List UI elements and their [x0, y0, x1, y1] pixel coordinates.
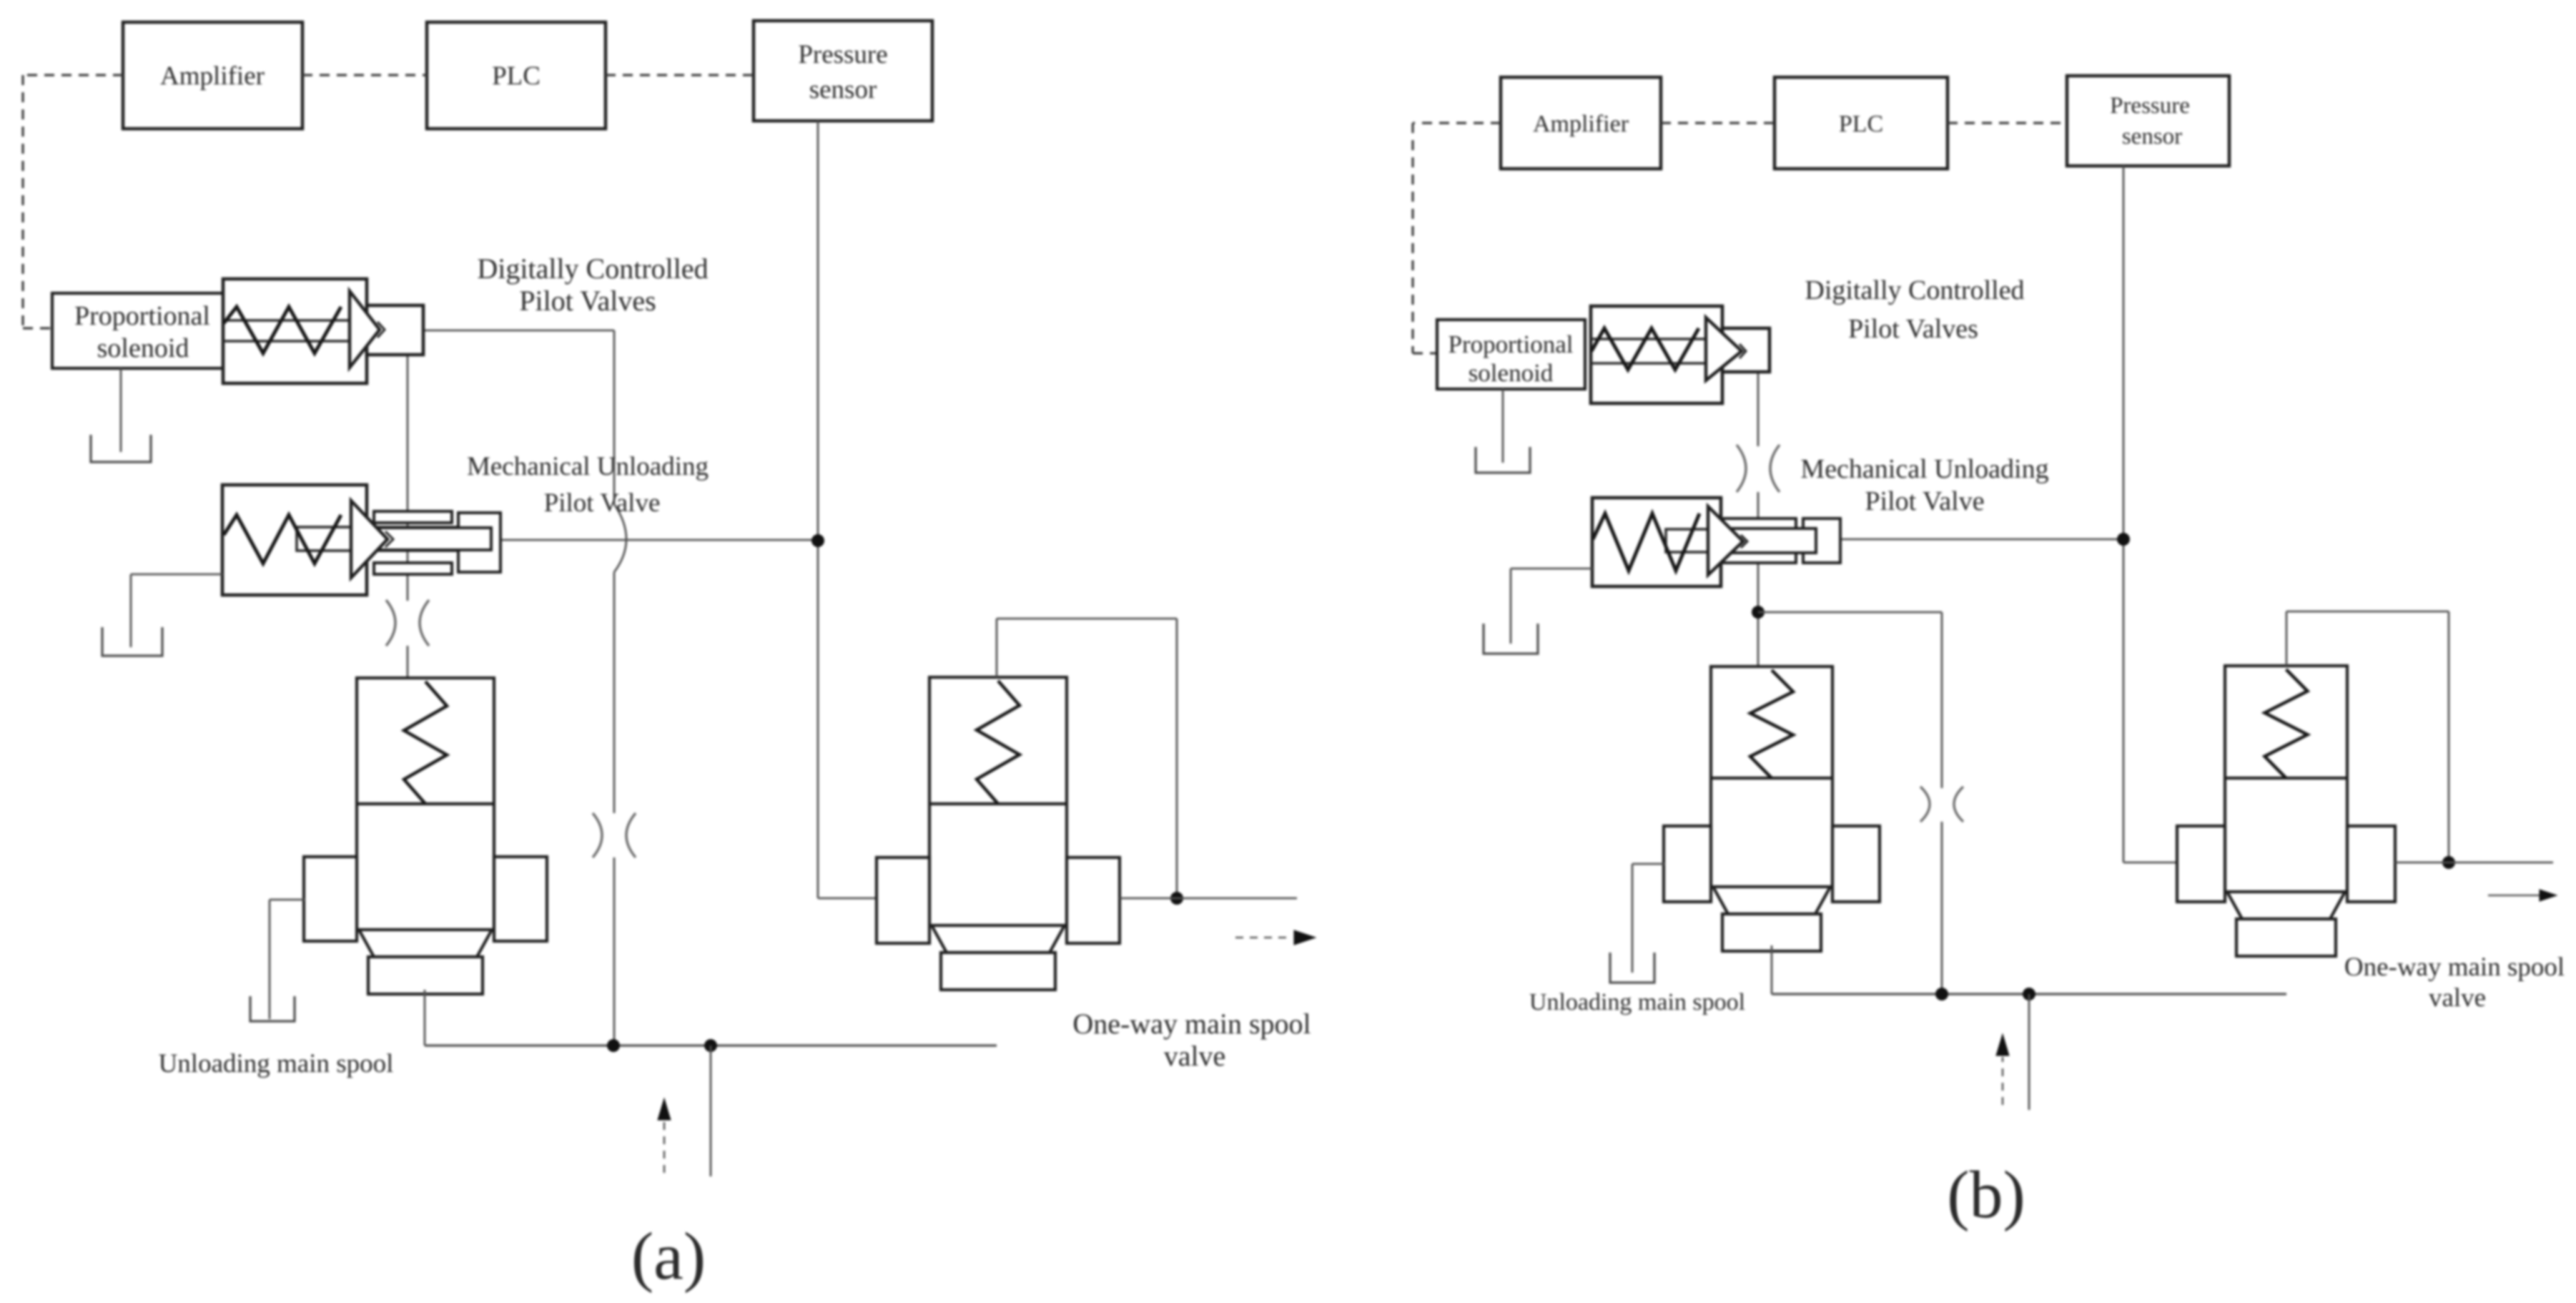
svg-text:(a): (a) — [631, 1219, 706, 1294]
svg-text:solenoid: solenoid — [97, 333, 189, 363]
svg-text:Unloading main spool: Unloading main spool — [159, 1049, 394, 1078]
svg-text:Pressure: Pressure — [798, 40, 887, 69]
svg-text:valve: valve — [2429, 983, 2486, 1013]
svg-text:One-way main spool: One-way main spool — [2344, 953, 2565, 982]
svg-text:Digitally Controlled: Digitally Controlled — [477, 252, 708, 285]
svg-text:Pilot Valves: Pilot Valves — [1848, 314, 1978, 344]
svg-text:(b): (b) — [1947, 1158, 2025, 1232]
svg-text:Mechanical Unloading: Mechanical Unloading — [467, 452, 709, 481]
svg-text:Pressure: Pressure — [2110, 93, 2190, 119]
svg-text:Unloading main spool: Unloading main spool — [1529, 989, 1745, 1016]
svg-text:Pilot Valve: Pilot Valve — [544, 488, 661, 518]
svg-text:sensor: sensor — [2122, 124, 2182, 149]
svg-text:sensor: sensor — [809, 75, 877, 104]
svg-text:Proportional: Proportional — [1449, 330, 1574, 358]
svg-text:Amplifier: Amplifier — [160, 62, 265, 91]
svg-text:PLC: PLC — [492, 62, 541, 91]
svg-text:PLC: PLC — [1839, 111, 1883, 137]
svg-text:Pilot Valves: Pilot Valves — [519, 285, 656, 317]
svg-text:solenoid: solenoid — [1469, 359, 1554, 387]
svg-text:valve: valve — [1164, 1040, 1226, 1072]
svg-text:Proportional: Proportional — [74, 301, 210, 331]
svg-text:One-way main spool: One-way main spool — [1072, 1008, 1311, 1040]
svg-text:Amplifier: Amplifier — [1533, 111, 1629, 137]
svg-text:Pilot Valve: Pilot Valve — [1865, 486, 1984, 516]
svg-text:Mechanical Unloading: Mechanical Unloading — [1800, 454, 2048, 484]
svg-text:Digitally Controlled: Digitally Controlled — [1805, 275, 2024, 305]
